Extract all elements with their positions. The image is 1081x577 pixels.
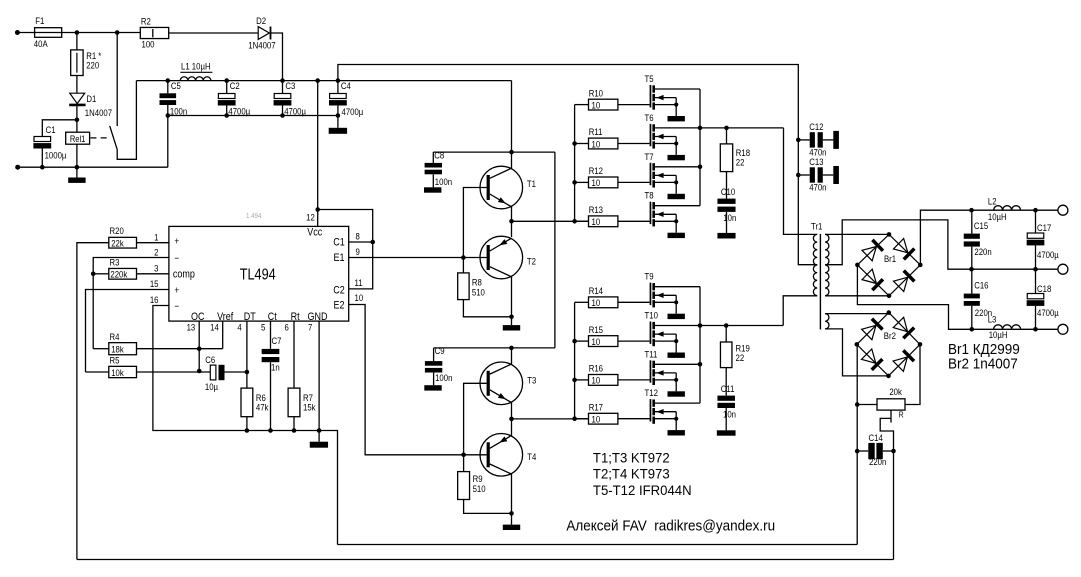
wire xyxy=(226,105,228,115)
wire xyxy=(618,181,650,183)
resistor R7 xyxy=(288,388,316,417)
relay contact switch xyxy=(90,126,117,150)
wire xyxy=(575,340,589,342)
svg-text:10: 10 xyxy=(355,292,364,303)
wire xyxy=(463,300,511,317)
transistor T11 xyxy=(645,349,701,392)
resistor R20 xyxy=(109,225,137,248)
wire xyxy=(463,455,465,472)
wire lower gate bus xyxy=(574,302,576,419)
wire xyxy=(511,206,513,237)
wire xyxy=(434,347,555,349)
svg-text:C3: C3 xyxy=(285,80,295,91)
pin number 14 xyxy=(210,322,219,333)
svg-text:D2: D2 xyxy=(256,15,266,26)
svg-text:C18: C18 xyxy=(1037,283,1051,294)
svg-text:4700µ: 4700µ xyxy=(228,106,250,117)
svg-text:D1: D1 xyxy=(86,93,96,104)
wire xyxy=(76,144,78,167)
ground xyxy=(833,131,839,149)
svg-text:Br2 1n4007: Br2 1n4007 xyxy=(948,356,1018,373)
node E1 xyxy=(509,219,514,224)
svg-text:L3: L3 xyxy=(988,314,997,325)
node input plus terminal xyxy=(15,30,20,35)
svg-text:100n: 100n xyxy=(435,372,452,383)
svg-text:10: 10 xyxy=(592,414,601,425)
svg-text:9: 9 xyxy=(356,246,360,257)
inductor L3 xyxy=(988,314,1021,340)
wire xyxy=(783,296,817,326)
capacitor C14 xyxy=(857,432,893,467)
node D7 xyxy=(698,165,703,170)
node I xyxy=(336,113,341,118)
svg-text:C8: C8 xyxy=(434,150,444,161)
svg-text:1N4007: 1N4007 xyxy=(85,107,112,118)
svg-text:4: 4 xyxy=(237,322,241,333)
svg-text:Tr1: Tr1 xyxy=(811,221,823,232)
ground xyxy=(424,385,441,390)
transformer Tr1 xyxy=(811,221,829,330)
node Q xyxy=(245,428,250,433)
ground xyxy=(329,128,347,134)
node O4 xyxy=(1033,208,1038,213)
resistor R9 xyxy=(458,472,486,500)
node lbus3 xyxy=(572,416,577,421)
capacitor C18 xyxy=(1027,269,1059,329)
wire xyxy=(462,258,464,273)
wire xyxy=(18,166,168,168)
wire xyxy=(700,127,784,129)
resistor R14 xyxy=(589,285,618,308)
resistor R8 xyxy=(458,273,485,300)
svg-text:470n: 470n xyxy=(809,182,826,193)
svg-text:F1: F1 xyxy=(35,15,44,26)
wire T1 base xyxy=(463,188,486,258)
wire E1 to gate bus xyxy=(512,220,589,222)
ground xyxy=(668,353,685,358)
capacitor C3 xyxy=(274,78,306,116)
svg-text:T3: T3 xyxy=(527,375,536,386)
svg-text:C1: C1 xyxy=(46,124,56,135)
svg-text:Br2: Br2 xyxy=(884,330,896,341)
ground xyxy=(68,178,85,183)
svg-text:20k: 20k xyxy=(889,386,902,397)
ground xyxy=(668,155,685,160)
svg-text:R14: R14 xyxy=(589,285,603,296)
svg-text:4700µ: 4700µ xyxy=(1037,307,1059,318)
pin number 5 xyxy=(261,322,265,333)
wire xyxy=(905,344,920,404)
svg-text:C1: C1 xyxy=(333,237,345,249)
transistor T8 xyxy=(645,190,701,233)
svg-text:4700µ: 4700µ xyxy=(284,106,306,117)
terminal zero xyxy=(1058,264,1068,274)
svg-text:TL494: TL494 xyxy=(240,266,276,283)
wire xyxy=(618,143,650,145)
svg-text:R17: R17 xyxy=(589,402,603,413)
wire Vcc to pin 12 xyxy=(317,81,319,227)
transistor T3 xyxy=(480,362,523,405)
wire pin 9 E1 xyxy=(349,257,487,259)
svg-text:C2: C2 xyxy=(230,80,240,91)
resistor R1 xyxy=(71,33,102,76)
wire xyxy=(225,371,247,373)
wire pin 8 stub xyxy=(349,241,373,243)
wire xyxy=(137,371,211,373)
svg-text:T10: T10 xyxy=(645,310,659,321)
svg-text:10: 10 xyxy=(592,139,601,150)
svg-text:C10: C10 xyxy=(721,186,735,197)
diode D1 xyxy=(69,93,112,118)
node D10 xyxy=(698,323,703,328)
svg-text:T1: T1 xyxy=(527,178,536,189)
ground xyxy=(717,430,736,435)
node O2 xyxy=(969,267,974,272)
wire xyxy=(270,362,272,430)
node lbus2 xyxy=(572,378,577,383)
pin number 1 xyxy=(154,232,158,243)
wire xyxy=(618,104,650,106)
svg-text:1: 1 xyxy=(154,232,158,243)
wire xyxy=(575,418,589,420)
resistor R12 xyxy=(589,165,618,188)
terminal plus xyxy=(1058,205,1068,215)
svg-text:10: 10 xyxy=(592,375,601,386)
svg-text:R: R xyxy=(899,410,904,420)
wire xyxy=(282,105,284,115)
wire xyxy=(76,76,78,93)
wire xyxy=(575,220,589,222)
wire secondary centre tap xyxy=(825,220,1062,269)
wire xyxy=(618,379,650,381)
svg-text:C9: C9 xyxy=(435,345,445,356)
ground xyxy=(310,442,328,448)
resistor R11 xyxy=(589,126,618,149)
wire pin 5 Ct xyxy=(270,321,272,349)
svg-text:10: 10 xyxy=(592,216,601,227)
node P xyxy=(245,370,250,375)
resistor R10 xyxy=(589,88,618,111)
node R19top xyxy=(724,323,729,328)
node bus2 xyxy=(572,180,577,185)
capacitor C7 xyxy=(262,335,282,372)
svg-text:40A: 40A xyxy=(34,38,48,49)
svg-text:T5-T12 IFR044N: T5-T12 IFR044N xyxy=(593,483,692,498)
pin number 9 xyxy=(356,246,360,257)
svg-text:C11: C11 xyxy=(721,383,735,394)
wire pin 15 xyxy=(86,290,169,373)
wire T3 base xyxy=(464,383,487,455)
wire pin 10 E2 xyxy=(349,305,487,455)
svg-text:10k: 10k xyxy=(111,367,124,378)
ground xyxy=(668,314,685,319)
terminal minus xyxy=(1058,324,1068,334)
pin number 7 xyxy=(308,322,312,333)
ground xyxy=(668,233,685,238)
svg-text:18k: 18k xyxy=(111,344,124,355)
wire xyxy=(511,474,513,525)
wire xyxy=(511,348,513,365)
node H xyxy=(280,113,285,118)
node P3 xyxy=(891,449,896,454)
wire xyxy=(893,444,895,560)
node D6 xyxy=(698,126,703,131)
capacitor C9 xyxy=(425,345,453,385)
wire xyxy=(76,105,78,133)
svg-text:+: + xyxy=(174,236,179,247)
svg-text:−: − xyxy=(174,301,179,312)
node Y xyxy=(461,453,466,458)
capacitor C2 xyxy=(218,78,250,116)
transistor T7 xyxy=(645,151,701,194)
svg-text:10µH: 10µH xyxy=(988,211,1007,222)
svg-text:C13: C13 xyxy=(809,156,823,167)
pin number 6 xyxy=(285,322,289,333)
wire lower drain bus xyxy=(699,287,701,403)
svg-text:1N4007: 1N4007 xyxy=(248,40,275,51)
ground xyxy=(503,525,520,530)
svg-text:16: 16 xyxy=(150,294,159,305)
node bus1 xyxy=(572,141,577,146)
svg-text:Vref: Vref xyxy=(217,311,233,323)
wire xyxy=(137,348,223,350)
node X xyxy=(509,346,514,351)
wire xyxy=(137,242,169,244)
resistor R17 xyxy=(589,402,618,425)
wire xyxy=(511,81,513,169)
capacitor C13 xyxy=(798,156,833,193)
transistor T1 xyxy=(480,166,523,209)
node R xyxy=(268,428,273,433)
svg-text:E1: E1 xyxy=(333,252,344,264)
node R18top xyxy=(724,126,729,131)
pin number 8 xyxy=(356,231,360,242)
wire top rail xyxy=(338,65,798,266)
pin number 15 xyxy=(150,278,159,289)
bridge rectifier Br2 xyxy=(855,310,923,378)
wire xyxy=(42,120,77,137)
svg-text:6: 6 xyxy=(285,322,289,333)
pin number 13 xyxy=(187,322,196,333)
wire xyxy=(337,105,339,127)
potentiometer R 20k xyxy=(857,386,905,444)
svg-text:T8: T8 xyxy=(645,190,654,201)
svg-text:47k: 47k xyxy=(256,402,269,413)
node U xyxy=(509,150,514,155)
wire xyxy=(575,301,589,303)
pin number 16 xyxy=(150,294,159,305)
node L xyxy=(370,240,375,245)
wire xyxy=(618,340,650,342)
svg-text:11: 11 xyxy=(355,277,363,288)
svg-text:−: − xyxy=(174,253,179,264)
wire xyxy=(137,273,169,275)
svg-text:1n: 1n xyxy=(271,362,280,373)
wire xyxy=(575,181,589,183)
wire pin 6 Rt xyxy=(293,321,295,388)
svg-text:E2: E2 xyxy=(333,300,344,312)
node lbus1 xyxy=(572,339,577,344)
annotation author xyxy=(566,518,775,535)
wire pin 14 Vref xyxy=(222,321,224,349)
node N xyxy=(197,346,202,351)
wire xyxy=(246,417,248,431)
svg-text:C6: C6 xyxy=(205,354,215,365)
op-amp U1 TL494 xyxy=(169,213,349,324)
svg-text:comp: comp xyxy=(173,269,195,281)
svg-text:T11: T11 xyxy=(645,349,658,360)
wire xyxy=(700,325,783,327)
svg-text:14: 14 xyxy=(210,322,219,333)
wire xyxy=(784,128,818,234)
svg-text:C4: C4 xyxy=(341,80,351,91)
node C xyxy=(75,118,80,123)
svg-text:T12: T12 xyxy=(645,387,659,398)
node O1 xyxy=(969,208,974,213)
inductor L1 xyxy=(180,61,212,81)
resistor R6 xyxy=(241,388,269,417)
svg-text:510: 510 xyxy=(472,287,485,298)
svg-text:C17: C17 xyxy=(1037,222,1051,233)
capacitor C6 xyxy=(205,354,225,392)
svg-text:R3: R3 xyxy=(110,257,120,268)
node O5 xyxy=(1033,267,1038,272)
wire xyxy=(825,233,889,235)
svg-text:10: 10 xyxy=(592,297,601,308)
wire xyxy=(857,265,1062,329)
svg-text:13: 13 xyxy=(187,322,196,333)
bridge rectifier Br1 xyxy=(855,232,922,298)
svg-text:220n: 220n xyxy=(869,456,886,467)
wire pin 13 OC xyxy=(198,321,200,371)
resistor R18 xyxy=(720,128,750,172)
svg-text:22: 22 xyxy=(736,352,745,363)
relay coil Rel1 xyxy=(66,132,90,144)
svg-text:R15: R15 xyxy=(589,324,603,335)
transistor T9 xyxy=(645,271,701,314)
svg-text:7: 7 xyxy=(308,322,312,333)
node bus3 xyxy=(572,219,577,224)
diode D2 xyxy=(248,15,275,51)
node J xyxy=(315,78,320,83)
capacitor C4 xyxy=(329,78,363,117)
capacitor C17 xyxy=(1027,210,1059,269)
svg-text:4700µ: 4700µ xyxy=(342,106,364,117)
svg-text:Vcc: Vcc xyxy=(307,227,322,239)
wire xyxy=(618,220,650,222)
ground xyxy=(503,325,520,330)
node P1 xyxy=(855,402,860,407)
wire feedback rail 1 xyxy=(338,544,858,546)
wire xyxy=(511,402,513,436)
svg-text:12: 12 xyxy=(306,212,315,223)
wire pin 4 DT xyxy=(246,321,248,388)
svg-text:R13: R13 xyxy=(589,204,603,215)
svg-text:T9: T9 xyxy=(645,271,654,282)
svg-text:C16: C16 xyxy=(974,280,988,291)
svg-text:C15: C15 xyxy=(974,220,988,231)
wire xyxy=(433,151,555,153)
svg-text:L1 10µH: L1 10µH xyxy=(181,61,211,72)
capacitor C15 xyxy=(964,210,992,269)
ground xyxy=(668,194,685,199)
ground xyxy=(668,391,685,396)
svg-text:T2: T2 xyxy=(527,256,536,267)
wire xyxy=(554,152,556,348)
wire xyxy=(117,81,136,160)
capacitor C5 xyxy=(160,78,188,116)
node A xyxy=(75,30,80,35)
resistor R15 xyxy=(589,324,618,347)
transistor T6 xyxy=(645,112,701,155)
wire aux top xyxy=(825,313,889,315)
svg-text:R20: R20 xyxy=(110,225,124,236)
node S xyxy=(292,428,297,433)
svg-text:C2: C2 xyxy=(333,285,345,297)
wire upper gate bus xyxy=(574,105,576,222)
svg-text:L2: L2 xyxy=(988,196,997,207)
svg-text:R5: R5 xyxy=(110,355,120,366)
node T xyxy=(317,428,322,433)
node D11 xyxy=(698,362,703,367)
capacitor C16 xyxy=(964,269,993,329)
capacitor C11 xyxy=(717,368,736,431)
ground xyxy=(833,166,839,184)
svg-text:DT: DT xyxy=(244,311,256,323)
svg-text:T2;T4 KT973: T2;T4 KT973 xyxy=(593,467,670,482)
wire xyxy=(169,32,259,34)
wire xyxy=(825,295,889,297)
wire xyxy=(93,348,109,350)
svg-text:220n: 220n xyxy=(974,246,991,257)
transistor T12 xyxy=(645,387,701,430)
svg-text:Br1: Br1 xyxy=(884,253,896,264)
ground xyxy=(668,116,685,121)
svg-text:100n: 100n xyxy=(435,176,452,187)
wire xyxy=(575,379,589,381)
wire xyxy=(318,210,373,289)
svg-text:Rel1: Rel1 xyxy=(70,133,86,144)
svg-text:Ct: Ct xyxy=(268,311,277,323)
pin number 11 xyxy=(355,277,363,288)
svg-text:220k: 220k xyxy=(110,269,127,280)
svg-text:R10: R10 xyxy=(589,88,603,99)
annotation transistor types xyxy=(593,450,692,497)
svg-text:10µ: 10µ xyxy=(205,381,218,392)
svg-text:10: 10 xyxy=(592,177,601,188)
svg-text:10n: 10n xyxy=(723,212,736,223)
svg-text:8: 8 xyxy=(356,231,360,242)
resistor R19 xyxy=(720,326,749,368)
node O3 xyxy=(970,327,975,332)
wire xyxy=(575,104,589,106)
wire xyxy=(464,500,512,514)
svg-text:10: 10 xyxy=(592,336,601,347)
svg-text:10: 10 xyxy=(592,100,601,111)
svg-text:10n: 10n xyxy=(723,409,736,420)
svg-text:C5: C5 xyxy=(171,80,181,91)
wire xyxy=(41,149,43,168)
svg-text:+: + xyxy=(174,285,179,296)
wire pin 16 xyxy=(153,306,338,545)
wire feedback rail 2 xyxy=(77,559,894,561)
fuse F1 xyxy=(34,15,62,49)
wire lower bus xyxy=(168,115,338,117)
node W xyxy=(509,315,514,320)
svg-text:15k: 15k xyxy=(303,402,316,413)
pin number 10 xyxy=(355,292,364,303)
svg-text:R12: R12 xyxy=(589,165,603,176)
